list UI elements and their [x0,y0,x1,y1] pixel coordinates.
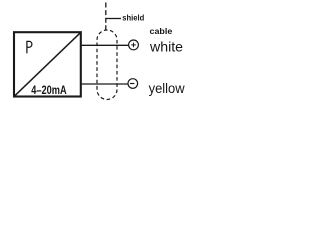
svg-text:white: white [149,39,183,55]
terminal - [128,79,138,89]
svg-text:4–20mA: 4–20mA [31,83,67,97]
shield tick wire [106,18,121,20]
cable outline (dashed capsule) [97,30,117,100]
svg-text:cable: cable [150,26,173,36]
svg-text:shield: shield [122,12,144,22]
svg-text:yellow: yellow [149,80,186,96]
shield lead (dashed wire) [105,3,107,30]
transducer U1 diagonal [15,33,81,96]
transducer U1 (pressure transmitter box) [14,32,81,96]
terminal + [129,40,139,50]
label P (pressure) [27,41,32,53]
wire + (top, box to terminal) [81,44,129,46]
wire - (bottom, box to terminal) [81,83,128,85]
